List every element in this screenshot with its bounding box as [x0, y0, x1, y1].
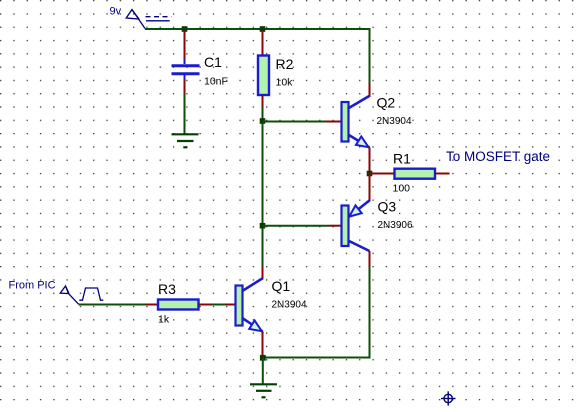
wire bottom return to emitter node [263, 357, 371, 359]
svg-text:R3: R3 [158, 281, 176, 297]
input terminal symbol [60, 286, 78, 304]
wire C1 to ground [184, 93, 186, 134]
svg-text:C1: C1 [204, 54, 222, 70]
svg-text:To MOSFET gate: To MOSFET gate [446, 149, 550, 164]
svg-text:2N3906: 2N3906 [378, 220, 413, 231]
svg-text:10k: 10k [276, 77, 294, 89]
power supply symbol 9v [126, 10, 171, 29]
svg-text:Q3: Q3 [378, 199, 397, 215]
resistor R1 [370, 169, 450, 179]
pulse waveform symbol [79, 288, 103, 300]
wire middle column R2 bottom to Q1 collector [262, 120, 264, 267]
svg-text:10nF: 10nF [204, 76, 228, 88]
transistor Q2 [326, 83, 370, 174]
wire right column down to Q2 collector [369, 28, 371, 83]
node junction R2 top [260, 26, 266, 32]
transistor Q3 [330, 174, 370, 267]
svg-text:R2: R2 [276, 56, 294, 72]
transistor Q1 [225, 267, 263, 358]
wire node to ground [262, 358, 264, 385]
svg-text:Q1: Q1 [272, 278, 291, 294]
resistor R2 [258, 29, 269, 121]
ground symbol below Q1 [250, 384, 277, 397]
wire to Q2 base [263, 121, 327, 123]
node junction emitter ground [260, 355, 266, 361]
node junction C1 top [182, 26, 188, 32]
svg-text:Q2: Q2 [377, 95, 396, 111]
svg-text:100: 100 [393, 183, 411, 195]
node junction R1 node [367, 171, 373, 177]
wire 9V top rail [145, 28, 371, 30]
origin crosshair marker [441, 391, 456, 405]
svg-text:From PIC: From PIC [9, 280, 56, 292]
svg-text:R1: R1 [393, 151, 411, 167]
wire R3 to Q1 base [212, 304, 225, 306]
svg-text:1k: 1k [158, 314, 170, 326]
wire to Q3 base [263, 225, 331, 227]
svg-text:2N3904: 2N3904 [272, 300, 307, 311]
ground symbol below C1 [172, 134, 199, 147]
wire From PIC to R3 [79, 304, 146, 306]
capacitor C1 [172, 29, 200, 93]
node junction R2 bottom [260, 118, 266, 124]
resistor R3 [146, 300, 212, 310]
svg-text:9v: 9v [110, 6, 122, 18]
node junction Q3 base tap [260, 223, 266, 229]
wire Q3 collector down right column [369, 267, 371, 359]
svg-text:2N3904: 2N3904 [377, 116, 412, 127]
